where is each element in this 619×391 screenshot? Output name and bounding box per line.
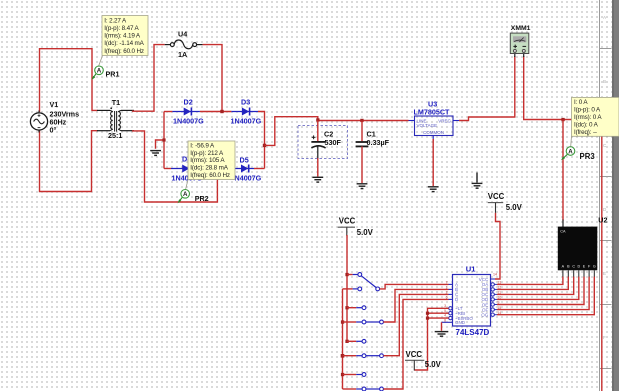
- svg-text:1N4007G: 1N4007G: [231, 117, 262, 126]
- svg-text:I: 0 A: I: 0 A: [574, 99, 588, 106]
- svg-text:13: 13: [498, 281, 502, 285]
- diode D3: [231, 108, 258, 116]
- wire bridge left node ground branch: [156, 140, 165, 149]
- svg-text:VOLTAGE: VOLTAGE: [417, 123, 438, 128]
- svg-text:OG: OG: [481, 313, 489, 318]
- diode D4: [171, 165, 198, 173]
- switch J4: [343, 373, 384, 391]
- wire C1 to ground: [361, 146, 363, 183]
- wire VCC to U1 pin14: [495, 213, 500, 279]
- svg-text:PR2: PR2: [195, 194, 209, 203]
- display U2 body: [558, 227, 598, 271]
- wire D2 cathode to top node: [200, 111, 232, 113]
- probe tooltip PR1: [102, 16, 148, 56]
- svg-text:A: A: [603, 15, 607, 20]
- wire plus node to filter bus: [265, 117, 409, 146]
- svg-text:D5: D5: [240, 155, 249, 164]
- probe tooltip PR2: [188, 141, 235, 180]
- svg-text:14: 14: [498, 311, 502, 315]
- wire segment display F: [497, 277, 589, 310]
- chip U1 74LS47D: [444, 273, 501, 327]
- svg-text:I(p-p): 0 A: I(p-p): 0 A: [574, 107, 601, 114]
- ground U3: [428, 187, 439, 192]
- svg-text:I(freq): --: I(freq): --: [574, 129, 597, 136]
- junction bus A SW1: [345, 273, 348, 276]
- wire segment display C: [497, 277, 574, 295]
- svg-text:COMMON: COMMON: [423, 130, 444, 135]
- junction bus A SW2: [345, 306, 348, 309]
- svg-text:5: 5: [444, 309, 446, 313]
- junction C2 tap: [316, 118, 319, 121]
- svg-text:A: A: [183, 191, 188, 198]
- svg-text:9: 9: [498, 301, 500, 305]
- svg-text:A: A: [568, 148, 573, 155]
- wire J4 common to U1 D: [383, 299, 448, 389]
- svg-text:D: D: [455, 297, 459, 302]
- wire C1 top stub: [361, 121, 363, 142]
- svg-text:4: 4: [444, 314, 446, 318]
- svg-text:A: A: [97, 68, 102, 75]
- svg-text:1A: 1A: [178, 50, 187, 59]
- wire segment display D: [497, 277, 579, 300]
- svg-text:1N4007G: 1N4007G: [173, 117, 204, 126]
- svg-text:5.0V: 5.0V: [425, 360, 442, 369]
- svg-text:B: B: [603, 79, 606, 84]
- svg-text:I(rms): 105 A: I(rms): 105 A: [190, 157, 225, 164]
- chip U1 input stubs: [442, 284, 453, 322]
- wire BI tap: [428, 317, 449, 319]
- wire D2 anode: [164, 111, 172, 113]
- ground U1: [435, 332, 449, 337]
- svg-text:3: 3: [444, 304, 446, 308]
- svg-text:VCC: VCC: [339, 217, 356, 226]
- junction display feed node: [561, 118, 564, 121]
- svg-text:XMM1: XMM1: [511, 25, 531, 32]
- wire bridge left node: [163, 112, 165, 169]
- svg-text:VCC: VCC: [488, 192, 505, 201]
- power VCC bottom: [405, 350, 442, 371]
- svg-text:T1: T1: [112, 98, 120, 107]
- svg-text:5.0V: 5.0V: [506, 203, 523, 212]
- wire fuse to bridge top node: [203, 45, 222, 112]
- svg-text:D: D: [577, 264, 580, 268]
- wire D3 cathode to plus node: [258, 112, 265, 169]
- ground C1: [357, 184, 368, 189]
- svg-text:E: E: [603, 271, 606, 276]
- svg-text:VCC: VCC: [406, 350, 423, 359]
- svg-text:C: C: [603, 143, 607, 148]
- svg-text:PR1: PR1: [106, 70, 120, 79]
- svg-text:N4007G: N4007G: [235, 173, 262, 182]
- svg-text:I(rms): 4.19 A: I(rms): 4.19 A: [104, 33, 141, 40]
- wire segment display A: [497, 277, 563, 285]
- junction bus A SW3 end: [345, 340, 348, 343]
- svg-text:I(dc): 0 A: I(dc): 0 A: [574, 121, 599, 128]
- svg-text:12: 12: [498, 286, 502, 290]
- svg-text:F: F: [603, 335, 606, 340]
- svg-text:U4: U4: [178, 29, 187, 38]
- wire LT RBI BI to VCC: [414, 308, 448, 370]
- switch J1: [343, 273, 380, 291]
- svg-text:I: 2.27 A: I: 2.27 A: [104, 17, 127, 24]
- wire segment display B: [497, 277, 568, 290]
- svg-text:C: C: [572, 264, 575, 268]
- wire right bus down off sheet: [601, 120, 603, 391]
- sheet border line: [599, 0, 612, 391]
- wire secondary top to fuse: [132, 45, 165, 112]
- multimeter XMM1: [510, 33, 529, 57]
- capacitor C2: [311, 142, 325, 160]
- ground C2: [312, 177, 323, 182]
- power VCC switches: [338, 217, 374, 238]
- svg-text:15: 15: [498, 306, 502, 310]
- wire segment display E: [497, 277, 584, 305]
- svg-text:I: -56.9 A: I: -56.9 A: [190, 143, 215, 150]
- wire C2 to ground: [317, 158, 319, 177]
- junction bus B SW2: [341, 320, 344, 323]
- svg-text:LM7805CT: LM7805CT: [414, 108, 451, 117]
- svg-text:74LS47D: 74LS47D: [456, 328, 490, 337]
- wire J2 common to U1 B: [383, 289, 448, 322]
- svg-text:25:1: 25:1: [108, 131, 122, 140]
- sheet zone letters: [603, 15, 607, 340]
- svg-text:11: 11: [498, 291, 502, 295]
- svg-text:530F: 530F: [325, 138, 342, 147]
- svg-text:I(dc): -1.14 mA: I(dc): -1.14 mA: [104, 40, 144, 47]
- svg-text:I(dc): 28.8 mA: I(dc): 28.8 mA: [190, 165, 228, 172]
- svg-text:14: 14: [493, 273, 497, 277]
- chip U1 output bubbles and stubs: [491, 279, 498, 316]
- wire RBI tap: [428, 312, 449, 314]
- wire C2 top stub: [317, 121, 319, 142]
- diode D2: [172, 108, 200, 116]
- svg-text:0.33µF: 0.33µF: [367, 138, 390, 147]
- svg-text:V1: V1: [50, 100, 59, 109]
- diode D5: [232, 165, 254, 173]
- switch J2: [343, 306, 384, 324]
- svg-text:G: G: [593, 264, 596, 268]
- power VCC top for U1: [488, 192, 523, 213]
- wire U3 output to XMM1 plus: [459, 56, 515, 121]
- svg-text:5.0V: 5.0V: [357, 228, 374, 237]
- wire down to display CA: [562, 120, 564, 221]
- wire bus B left rail: [342, 289, 344, 389]
- svg-text:D3: D3: [241, 97, 250, 106]
- chip U1 control bubbles: [449, 307, 452, 320]
- junction BI: [426, 317, 429, 320]
- ground floating: [472, 173, 483, 189]
- svg-text:I(freq): 60.0 Hz: I(freq): 60.0 Hz: [190, 172, 230, 179]
- probe tooltip PR3: [571, 97, 619, 146]
- wire XMM1 minus to vertical bus: [524, 56, 602, 120]
- wire segment display G: [497, 277, 594, 315]
- svg-text:U2: U2: [598, 216, 607, 225]
- junction bus B SW4: [341, 373, 344, 376]
- fuse U4: [165, 40, 203, 49]
- wire V1 bottom loop: [40, 131, 98, 192]
- svg-text:U1: U1: [466, 264, 476, 273]
- probe PR2: [178, 180, 190, 204]
- svg-text:I(freq): 60.0 Hz: I(freq): 60.0 Hz: [104, 48, 144, 55]
- source V1: [30, 111, 47, 133]
- svg-text:D2: D2: [184, 97, 193, 106]
- svg-text:CA: CA: [560, 230, 566, 234]
- junction bus B SW3: [341, 354, 345, 358]
- wire U3 common to ground: [432, 139, 434, 186]
- transformer T1: [97, 110, 134, 131]
- wire D5 cathode up to plus junction: [254, 168, 265, 170]
- svg-text:10: 10: [498, 296, 502, 300]
- svg-text:I(rms): 0 A: I(rms): 0 A: [574, 114, 602, 121]
- ground bridge: [150, 151, 161, 156]
- capacitor C1: [356, 142, 369, 146]
- wire secondary bottom to bridge bottom: [132, 131, 217, 202]
- wire D4 anode: [164, 168, 171, 170]
- display U2 stub top: [562, 220, 564, 228]
- wire V1 top loop: [40, 49, 98, 112]
- transformer T1 phase dot: [110, 107, 112, 109]
- svg-text:GND: GND: [455, 320, 466, 325]
- wire J3 common to U1 C: [383, 294, 448, 355]
- junction C1 tap: [360, 119, 363, 122]
- svg-text:VREG: VREG: [438, 118, 451, 123]
- label C2 plus sign: [312, 135, 316, 139]
- svg-text:I(p-p): 212 A: I(p-p): 212 A: [190, 150, 224, 157]
- wire D4 cathode to bottom node: [198, 168, 232, 170]
- switch J3: [343, 339, 384, 357]
- label V1 value: [50, 100, 80, 135]
- wire J1 common to U1 A: [380, 284, 449, 289]
- junction RBI: [426, 312, 429, 315]
- junction bridge left node: [162, 138, 165, 141]
- wire VCC bus A: [346, 235, 348, 341]
- wire U1 GND to ground: [441, 322, 443, 331]
- svg-text:0°: 0°: [50, 126, 57, 135]
- probe PR1: [92, 56, 104, 80]
- junction bridge plus node: [263, 144, 266, 147]
- probe PR3: [561, 147, 575, 161]
- junction bridge top node: [220, 110, 223, 113]
- svg-text:D: D: [603, 207, 607, 212]
- svg-text:PR3: PR3: [580, 152, 596, 161]
- regulator U3 LM7805CT: [409, 116, 460, 141]
- svg-text:I(p-p): 8.47 A: I(p-p): 8.47 A: [104, 25, 139, 32]
- display U2 bottom pin stubs: [563, 270, 594, 277]
- selection box around C2: [298, 126, 348, 159]
- scrollbar: [612, 0, 619, 391]
